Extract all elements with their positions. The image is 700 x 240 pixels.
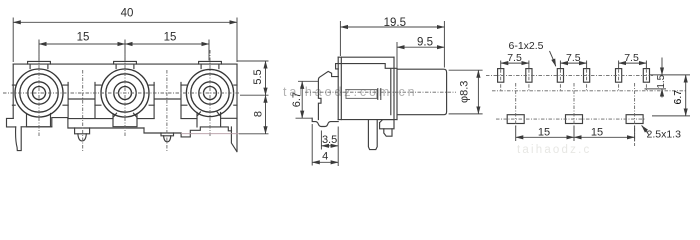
footprint pad 3 xyxy=(557,69,563,83)
leader 2.5x1.3 xyxy=(642,125,649,135)
svg-text:3.5: 3.5 xyxy=(322,134,337,146)
footprint pad row B pad 7 xyxy=(507,115,524,124)
dim 7.5 line group3 xyxy=(619,62,647,64)
dim 15 line b xyxy=(125,43,209,45)
dim 5.5 and 8 extension lines xyxy=(237,61,268,134)
side view barrel centerline xyxy=(305,91,456,93)
dim 15 extension lines xyxy=(516,126,635,142)
dim 5.5 line xyxy=(265,61,267,95)
dim 15 extension lines xyxy=(39,40,209,61)
dim 6.7 left line xyxy=(301,81,303,118)
housing rib stubs between J1 J2 xyxy=(63,85,101,105)
dim 7.5 extension lines group1 xyxy=(501,61,529,69)
side view barrel xyxy=(397,68,447,119)
svg-text:7.5: 7.5 xyxy=(624,52,639,64)
front view horizontal centerline xyxy=(3,92,240,94)
svg-text:7.5: 7.5 xyxy=(507,52,522,64)
dim 8 line xyxy=(265,95,267,134)
dim 6.7 right extension lines xyxy=(652,75,690,116)
mounting tab above jack J3 xyxy=(199,61,222,68)
svg-text:40: 40 xyxy=(121,8,134,20)
footprint pad 2 xyxy=(526,69,532,83)
side view plate bottom xyxy=(338,119,397,121)
dim 3.5 extension lines xyxy=(321,127,338,167)
svg-text:8: 8 xyxy=(252,111,264,117)
front view right foot xyxy=(231,127,236,151)
front view solder cup pin P1 xyxy=(75,128,90,134)
front view body left edge xyxy=(12,64,14,118)
side view bracket hump xyxy=(318,71,338,119)
centerline pin P2 xyxy=(166,70,168,152)
jack pedestal 1 xyxy=(27,114,52,127)
jack pedestal 3 xyxy=(197,112,221,127)
centerline jack J2 xyxy=(124,50,126,136)
dim 1.5 arrows xyxy=(661,58,663,75)
leader 6-1x2.5 xyxy=(550,51,556,66)
svg-text:9.5: 9.5 xyxy=(417,37,433,49)
footprint pad 8 xyxy=(566,115,583,124)
dim phi 8.3 line xyxy=(477,70,479,114)
centerline jack J1 xyxy=(38,50,40,136)
dim phi 8.3 extension lines xyxy=(449,70,483,114)
side view bottom wave foot xyxy=(312,118,338,126)
front view base strip mid run xyxy=(144,127,232,137)
svg-text:6.7: 6.7 xyxy=(672,90,684,105)
housing divider walls gap 1 xyxy=(68,83,95,119)
dim 40 line xyxy=(13,21,237,23)
side view plate verticals xyxy=(338,57,394,119)
housing rib stubs right of J3 xyxy=(234,85,237,105)
side view side lug xyxy=(380,120,394,129)
footprint pad 5 xyxy=(616,69,622,83)
dim 19.5 line xyxy=(340,26,444,28)
mounting tab above jack J2 xyxy=(114,61,137,68)
dim 7.5 extension lines group3 xyxy=(619,61,647,69)
footprint pad row A pad 1 xyxy=(498,69,504,83)
footprint pad stub centerlines xyxy=(501,69,647,91)
housing divider walls gap 2 xyxy=(154,83,181,119)
svg-text:5.5: 5.5 xyxy=(252,69,264,84)
dim 19.5 extension lines xyxy=(340,21,444,68)
svg-text:φ8.3: φ8.3 xyxy=(459,81,471,103)
footprint column centerline group2 xyxy=(573,83,575,127)
dim 4 line xyxy=(312,161,338,163)
svg-text:19.5: 19.5 xyxy=(384,17,406,29)
dim 6.7 left extension lines xyxy=(296,81,319,118)
centerline pin P1 xyxy=(82,70,84,151)
svg-text:6-1x2.5: 6-1x2.5 xyxy=(509,40,544,52)
footprint centerline row B xyxy=(496,118,646,120)
housing rib stubs left of J1 xyxy=(12,85,15,105)
front view base strip bottom left run xyxy=(21,118,144,128)
housing rib stubs between J2 J3 xyxy=(149,85,187,105)
dim 7.5 extension lines group2 xyxy=(560,61,586,69)
side view flange top xyxy=(336,57,397,69)
jack pedestal 2 xyxy=(113,113,137,127)
RCA jack J2 rings xyxy=(101,69,149,117)
footprint pad 4 xyxy=(584,69,590,83)
svg-text:taihaodz.c: taihaodz.c xyxy=(517,144,591,156)
dim 7.5 line group1 xyxy=(501,62,529,64)
side view PCB pin leg xyxy=(368,120,377,150)
svg-text:15: 15 xyxy=(538,126,550,138)
footprint centerline row A xyxy=(486,74,653,76)
dim 9.5 extension line xyxy=(396,42,398,68)
dim 1.5 extension lines xyxy=(645,75,668,89)
side view hidden center pin xyxy=(346,90,377,99)
dim 15 line b footprint xyxy=(574,136,635,138)
front view left foot xyxy=(16,127,22,151)
svg-text:15: 15 xyxy=(591,126,603,138)
dim 15 line a footprint xyxy=(516,136,574,138)
front view left base step xyxy=(7,118,16,127)
svg-text:1.5: 1.5 xyxy=(656,74,667,88)
mounting tab above jack J1 xyxy=(28,61,51,68)
footprint column centerline group3 xyxy=(634,83,636,146)
front view body right edge xyxy=(236,64,238,152)
dim 6.7 right line xyxy=(685,75,687,116)
svg-text:4: 4 xyxy=(322,151,328,163)
footprint pad 9 xyxy=(626,115,643,124)
RCA jack J1 rings xyxy=(15,69,63,117)
front view body top edge xyxy=(13,63,237,65)
dim 15 line a xyxy=(39,43,125,45)
RCA jack J3 rings xyxy=(186,69,233,116)
dim 40 extension lines xyxy=(13,18,237,63)
dim 9.5 line xyxy=(397,46,444,48)
svg-text:15: 15 xyxy=(164,32,177,44)
dim 8 extension line overrun xyxy=(181,133,239,135)
side view lug foot xyxy=(384,129,392,136)
footprint centerline mid xyxy=(492,90,686,92)
front view solder cup pin P2 xyxy=(161,133,174,136)
footprint pad 6 xyxy=(643,69,649,83)
dim 3.5 line xyxy=(321,145,338,147)
footprint column centerline group1 xyxy=(515,83,517,127)
svg-text:15: 15 xyxy=(77,32,90,44)
dim 7.5 line group2 xyxy=(560,62,586,64)
svg-text:6.7: 6.7 xyxy=(291,92,303,107)
dim 4 extension lines xyxy=(311,124,313,166)
svg-text:7.5: 7.5 xyxy=(566,52,581,64)
front view body bottom edge segments xyxy=(68,117,237,119)
svg-text:2.5x1.3: 2.5x1.3 xyxy=(647,129,682,141)
centerline jack J3 xyxy=(209,50,211,136)
